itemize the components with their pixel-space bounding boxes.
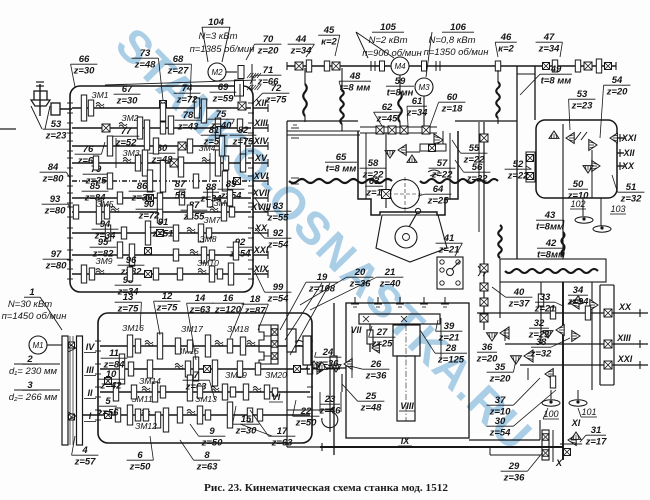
extra gear XIII [160,122,165,134]
svg-text:102: 102 [570,199,585,209]
svg-text:z=48: z=48 [360,403,383,414]
extra gear XIX [127,267,132,281]
vertical screw 49 [497,70,499,82]
gear on III right [204,366,211,373]
svg-text:53: 53 [577,89,588,100]
right box bevels top [566,133,574,144]
svg-text:88: 88 [206,182,217,193]
frame bottom links [287,446,320,448]
screw box [500,259,606,282]
xbox on bar 62 [376,126,384,134]
rail support marks right [291,177,299,179]
head housing [358,131,458,215]
svg-text:103: 103 [610,204,625,214]
svg-text:z=80: z=80 [42,174,65,185]
speed gearbox housing [70,86,253,292]
bevel XI 31 [568,435,576,446]
belt pulley pair [62,336,68,445]
pulley to shaft I [82,414,100,416]
svg-text:z=51: z=51 [152,229,174,240]
svg-text:z=50: z=50 [201,438,224,449]
gear 15 on I [227,402,232,428]
svg-text:z=48: z=48 [151,155,174,166]
shaft XXI stub right [617,137,624,139]
coupling right of M4 [422,61,427,71]
svg-text:33: 33 [540,292,551,303]
coupling left of M4 [370,61,372,71]
svg-text:z=63: z=63 [196,462,219,473]
shaft III [100,368,310,370]
svg-text:91: 91 [158,217,169,228]
clutch ZM15 gears [175,364,183,370]
svg-text:100: 100 [543,409,558,419]
vertical link M2 to XII [239,84,241,101]
handwheel 101 [577,390,579,399]
gear on XV mid [170,159,178,167]
bevel 29 [542,430,549,460]
vertical screw 59 from M4 [399,75,401,92]
svg-text:z=23: z=23 [45,131,68,142]
svg-text:IX: IX [401,436,411,446]
gear 73 on XII [160,101,167,108]
svg-text:М3: М3 [418,83,430,92]
svg-text:95: 95 [98,237,109,248]
motor M3 [415,78,433,96]
gear 91 on XVIII [157,193,162,223]
bevel 32 [556,325,564,336]
gear ZM4 on XV [215,150,220,176]
bevel 33 pair [570,297,579,309]
svg-text:XX: XX [254,223,268,233]
svg-text:77: 77 [121,126,132,137]
links lower right [505,343,540,345]
svg-text:z=21: z=21 [534,304,556,315]
clutch ZM13 gears [197,406,202,424]
svg-text:57: 57 [437,158,448,169]
svg-text:99: 99 [273,282,284,293]
vertical gear shaft 40 [483,122,485,330]
svg-text:40: 40 [513,287,525,298]
right gearbox housing [536,120,617,198]
svg-text:п=1350 об/мин: п=1350 об/мин [424,47,490,58]
svg-text:15: 15 [241,414,252,425]
svg-text:36: 36 [482,342,493,353]
svg-text:II: II [87,388,93,398]
svg-text:43: 43 [544,210,556,221]
svg-text:25: 25 [365,391,377,402]
svg-text:105: 105 [380,22,397,33]
shaft XIII lower [540,343,648,345]
svg-text:z=30: z=30 [235,426,258,437]
clutch ZM12 gears [155,412,160,428]
svg-text:48: 48 [349,71,361,82]
svg-text:z=55: z=55 [183,212,206,223]
svg-text:84: 84 [48,162,59,173]
svg-text:41: 41 [443,233,455,244]
vertical worm shaft 63 [385,133,387,208]
svg-text:47: 47 [543,32,555,43]
shaft XIX [72,273,251,275]
bevel 34 [590,300,598,311]
svg-text:z=32: z=32 [620,194,643,205]
svg-text:16: 16 [223,293,234,304]
clutch ZM3 gears [123,158,131,164]
svg-text:d₂= 266 мм: d₂= 266 мм [9,392,58,403]
clutch ZM8 gears [201,247,206,263]
svg-text:ЗМ17: ЗМ17 [181,324,203,334]
gear 7 on II [187,375,192,401]
leader line top [105,80,256,85]
svg-text:ЗМ12: ЗМ12 [135,421,157,431]
svg-text:z=32: z=32 [530,349,553,360]
shaft XXI [72,254,251,256]
svg-text:z=45: z=45 [376,114,399,125]
clutch ZM20 gears [264,385,269,399]
extra gear feed I [143,409,148,421]
gear 67 pair on XII [194,98,199,118]
svg-text:z=18: z=18 [441,104,464,115]
gear 5 on I [105,412,112,419]
bevel cluster 26 [344,359,352,370]
link 29 line [490,454,540,456]
gear 76 on XIV [107,136,112,156]
svg-text:67: 67 [122,84,133,95]
svg-text:М4: М4 [394,62,406,71]
svg-text:п=1450 об/мин: п=1450 об/мин [2,311,68,322]
gear on XV right [240,154,245,172]
svg-text:44: 44 [295,34,307,45]
extra gear feed II [131,385,136,399]
svg-text:ЗМ7: ЗМ7 [203,215,220,225]
svg-text:31: 31 [591,425,602,436]
vertical screw 45 worm [341,68,343,90]
svg-text:z=30: z=30 [73,66,96,77]
input bevel gear pair [34,91,47,104]
svg-text:5: 5 [105,396,111,407]
gear 11 [119,354,124,384]
svg-text:IV: IV [86,342,96,352]
frame top edge [287,120,358,122]
gear 89 on XVI [222,171,227,191]
svg-text:62: 62 [382,102,393,113]
svg-text:ЗМ16: ЗМ16 [122,323,144,333]
svg-text:z=63: z=63 [185,382,208,393]
M1 shaft [47,344,62,346]
svg-text:z=17: z=17 [585,437,608,448]
svg-text:z=80: z=80 [45,261,68,272]
svg-text:XXI: XXI [621,133,637,143]
svg-text:z=50: z=50 [129,462,152,473]
svg-text:52: 52 [513,159,524,170]
slide top bar [359,314,440,324]
rail support marks [291,127,299,129]
svg-text:61: 61 [412,96,423,107]
svg-text:87: 87 [175,179,186,190]
right lower box [599,285,601,385]
svg-text:76: 76 [83,144,94,155]
gear 87 on XVII [179,191,184,205]
svg-text:z=20: z=20 [257,46,280,57]
clutch ZM9 gears [81,265,86,283]
extra gear XVIII [187,205,192,219]
bevel cluster 55 [434,134,443,146]
bevel cluster left apron [317,362,326,374]
bevel 35 [524,350,533,362]
clutch ZM7 gears [198,224,203,242]
svg-text:ЗМ8: ЗМ8 [199,234,216,244]
svg-text:72: 72 [271,83,282,94]
handwheel 103 [600,198,602,226]
svg-text:XIII: XIII [616,333,631,343]
vertical V column [329,360,331,432]
extra gear XX [121,227,126,239]
svg-text:XIII: XIII [253,118,268,128]
shaft XVII [72,197,251,199]
svg-text:XX: XX [621,161,635,171]
motor M4 [391,57,409,75]
svg-text:64: 64 [433,184,444,195]
shaft XXI lower [520,364,648,366]
svg-text:z=30: z=30 [116,96,139,107]
svg-text:z=120: z=120 [214,305,242,316]
svg-text:69: 69 [218,82,229,93]
clutch ZM11 gears [127,405,132,425]
gear mid top shaft [495,61,500,71]
svg-text:50: 50 [573,179,584,190]
svg-text:z=50: z=50 [295,418,318,429]
bevel 38 [572,331,580,342]
shaft II [100,391,310,393]
svg-text:18: 18 [250,294,261,305]
svg-text:51: 51 [626,182,637,193]
shaft IV [100,345,310,347]
svg-text:65: 65 [336,152,347,163]
svg-text:60: 60 [447,92,458,103]
clutch ZM1 gears [81,95,86,121]
svg-text:32: 32 [534,318,545,329]
extra gear XVII [117,192,122,204]
svg-text:z=42: z=42 [100,381,123,392]
gear 19 big [287,329,296,352]
svg-text:z=34: z=34 [406,108,429,119]
svg-text:14: 14 [195,293,206,304]
clutch ZM6 gears [221,203,226,221]
gear 98 on XIX [145,271,152,278]
svg-text:z=87: z=87 [244,306,267,317]
pentagon lever [409,213,417,227]
svg-text:N=30 кВт: N=30 кВт [8,299,52,310]
svg-text:z=56: z=56 [97,408,120,419]
svg-text:X: X [555,458,563,468]
svg-text:11: 11 [109,348,119,359]
wave marks [428,170,440,176]
extra gear feed III [147,360,152,378]
shaft V stub [312,368,340,370]
svg-text:101: 101 [581,407,596,417]
extra gear XV [93,156,98,170]
extra gear XIV [153,138,158,154]
shaft XV [72,162,251,164]
screw wavy line [505,269,598,273]
svg-text:z=1: z=1 [365,188,382,199]
gear 57 bar [420,144,446,151]
svg-text:z=57: z=57 [74,457,97,468]
top horizontal shaft [287,65,616,67]
xbox on bar 60 [422,126,430,134]
svg-text:Рис. 23. Кинематическая схема: Рис. 23. Кинематическая схема станка мод… [204,483,448,494]
input shaft [60,108,72,110]
svg-text:46: 46 [500,32,512,43]
worm wheel 64 [391,180,420,209]
vertical screw 42 long [498,225,502,258]
shaft VII vertical [369,324,371,352]
svg-text:VI: VI [272,392,281,402]
svg-text:34: 34 [573,285,584,296]
svg-text:z=80: z=80 [44,206,67,217]
svg-text:86: 86 [137,181,148,192]
gear 95 on XXI [117,242,122,258]
preselector mechanism [259,325,271,364]
feed gearbox housing [98,313,312,443]
right box bevels bottom [592,161,600,172]
svg-text:70: 70 [263,34,274,45]
gear on XX mid [145,221,150,245]
lead screw wavy left [289,179,392,183]
svg-text:13: 13 [123,292,134,303]
vertical screw 48 [304,68,306,84]
extra gear feed IV [175,338,180,354]
svg-text:90: 90 [144,199,155,210]
bevel 58 pair [398,145,406,156]
extra fork lines [115,138,117,168]
shaft XII stub right [617,152,624,154]
pentagon circle [395,226,417,248]
svg-text:85: 85 [90,181,101,192]
svg-text:58: 58 [368,158,379,169]
gear 94 on XX [105,225,110,241]
svg-text:17: 17 [277,426,288,437]
svg-text:1: 1 [29,287,34,298]
svg-text:XXI: XXI [253,245,269,255]
apron inner verticals [351,330,353,378]
svg-text:к=2: к=2 [498,44,514,55]
svg-text:49: 49 [550,64,562,75]
svg-text:4: 4 [81,445,88,456]
vertical shaft right inner [591,282,593,390]
svg-text:8: 8 [204,450,210,461]
vertical link M3 [423,96,425,128]
shaft XX lower [477,312,648,314]
svg-text:3: 3 [27,380,33,391]
svg-text:z=54: z=54 [267,240,290,251]
svg-text:z=25: z=25 [427,196,450,207]
svg-text:z=23: z=23 [571,101,594,112]
svg-text:ЗМ3: ЗМ3 [122,148,139,158]
svg-text:XII: XII [622,148,635,158]
svg-text:ЗМ20: ЗМ20 [265,370,287,380]
svg-text:55: 55 [469,143,480,154]
svg-text:к=2: к=2 [321,37,337,48]
svg-text:XXI: XXI [617,354,633,364]
clutch ZM18 gears [240,337,245,355]
gear 70 on M2 shaft [238,66,244,79]
frame left wall [286,121,288,447]
svg-text:t=8 мм: t=8 мм [326,164,357,175]
column wall left [516,66,518,259]
svg-text:z=34: z=34 [538,44,561,55]
bevel 56 [407,155,417,162]
svg-text:ЗМ18: ЗМ18 [227,324,249,334]
svg-text:z=108: z=108 [308,284,336,295]
svg-text:z=22: z=22 [507,171,530,182]
svg-text:t=8 мм: t=8 мм [541,76,572,87]
right box spring [575,132,587,140]
gear 75 on XIII [215,118,220,138]
shaft XX stub right [617,165,624,167]
worm 45 on top shaft [332,62,340,70]
apron outer wall [333,303,335,455]
shaft XVI [72,180,251,182]
bevel 37 [545,369,553,380]
svg-text:45: 45 [323,25,335,36]
svg-text:ЗМ1: ЗМ1 [91,90,108,100]
svg-text:38: 38 [536,337,547,348]
shaft XX [72,232,251,234]
svg-text:94: 94 [100,219,111,230]
svg-text:54: 54 [612,75,623,86]
svg-text:XX: XX [618,302,632,312]
head top bar [360,126,437,128]
bevel 36 [500,327,509,339]
gear 49 on top shaft [552,60,557,72]
column wall right [534,66,536,120]
svg-text:97: 97 [51,249,62,260]
shaft XIII [72,127,251,129]
column cross [517,73,535,75]
svg-text:71: 71 [263,65,274,76]
svg-text:z=75: z=75 [117,304,140,315]
svg-text:z=20: z=20 [606,87,629,98]
svg-text:93: 93 [50,194,61,205]
svg-text:t=8мм: t=8мм [536,222,564,233]
shaft XVIII [72,211,251,213]
handwheel 102 [582,198,584,216]
svg-text:10: 10 [106,369,117,380]
extra gear XXI [173,249,178,261]
clutch ZM17 gears [205,335,210,357]
svg-text:z=94: z=94 [567,297,590,308]
svg-text:7: 7 [193,370,199,381]
vertical shaft X upper [562,198,564,259]
svg-text:24: 24 [322,347,334,358]
svg-text:z=75: z=75 [265,95,288,106]
apron box [346,303,469,438]
svg-text:96: 96 [126,255,137,266]
svg-text:XI: XI [571,418,581,428]
svg-text:56: 56 [472,162,483,173]
svg-text:III: III [86,365,94,375]
svg-text:М2: М2 [211,68,223,77]
svg-text:z=54: z=54 [229,249,252,260]
svg-text:6: 6 [137,450,143,461]
shaft XIV [72,145,251,147]
svg-text:9: 9 [209,426,215,437]
svg-text:22: 22 [300,406,312,417]
svg-text:z=36: z=36 [503,473,526,484]
svg-text:z=37: z=37 [508,299,531,310]
clutch ZM2 gear pair [137,117,142,139]
gear 71 fixed [235,80,244,96]
